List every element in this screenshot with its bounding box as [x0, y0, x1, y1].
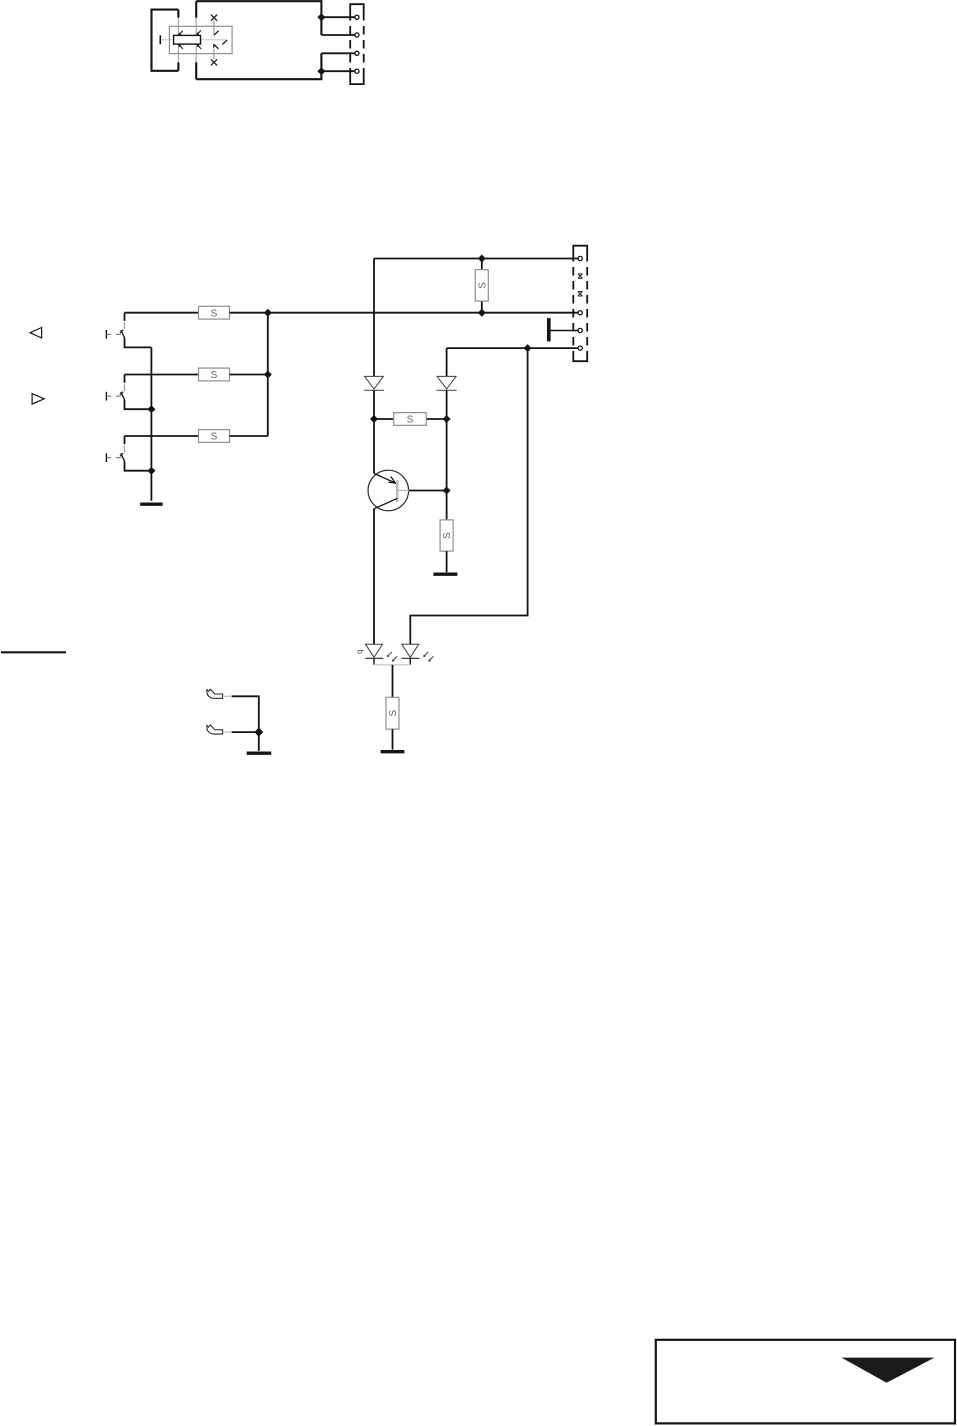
resistor S5	[394, 413, 427, 426]
horn symbol H1	[207, 689, 223, 698]
wire pin K2.4 run	[447, 347, 578, 349]
LED L1 arrows	[387, 652, 397, 662]
wire R3 to rail	[230, 435, 268, 437]
margin arrow up-symbol	[30, 328, 41, 339]
wire S7 to ground	[392, 729, 394, 750]
lamp X lower	[211, 59, 217, 65]
diode D2	[437, 376, 457, 390]
connector K2 pin 2	[578, 311, 582, 315]
actuation arrow top-right	[196, 30, 201, 35]
wire module to pin 1	[321, 16, 355, 18]
svg-text:S: S	[211, 370, 218, 381]
junction base resistor S6	[443, 487, 451, 495]
wire top bus to pin K2.1	[374, 258, 578, 260]
connector K2 pin 1	[578, 256, 582, 260]
resistor S7	[386, 697, 399, 729]
horn symbol H2	[207, 725, 223, 734]
wire D1 to junction	[373, 390, 375, 419]
chassis T bar	[547, 318, 551, 341]
wire H1 gray stub	[223, 695, 232, 697]
connector K2 code glyph 2	[578, 292, 583, 297]
margin arrow down-symbol	[32, 394, 44, 405]
connector K2 pin 3	[578, 328, 582, 332]
svg-text:b: b	[356, 650, 365, 655]
wire link to resistor S7	[392, 665, 394, 698]
module inner gray frame	[169, 26, 232, 53]
left branch vertical wire	[373, 259, 375, 377]
junction horn rail	[254, 728, 263, 737]
wire H2 gray stub	[223, 731, 232, 733]
contact blade lower	[214, 44, 219, 49]
slider axis line	[160, 39, 226, 41]
actuation arrow bottom-left	[178, 44, 183, 49]
lamp wire lower	[213, 49, 215, 60]
resistor S4 vertical	[475, 259, 488, 313]
actuation arrow bottom-right	[197, 44, 202, 49]
wire to resistor S5	[374, 418, 447, 420]
wire switch2 to resistor R2	[125, 374, 199, 376]
junction switch3 to rail	[147, 467, 155, 475]
connector K1 pin 3	[355, 51, 359, 55]
connector K1 housing	[350, 4, 364, 84]
svg-text:S: S	[442, 532, 453, 539]
connector K2 housing	[573, 246, 587, 362]
wire base to junction	[409, 490, 447, 492]
footer arrow	[842, 1358, 935, 1383]
chassis T wire	[551, 330, 579, 332]
wire junction to transistor emitter	[373, 419, 375, 473]
resistor R2	[199, 368, 230, 381]
junction LED2 feed	[524, 344, 532, 352]
ground symbol left	[140, 503, 162, 506]
wire D2 junction down to base	[446, 419, 448, 491]
resistor S6	[440, 520, 453, 551]
wire junction to resistor S6	[446, 491, 448, 520]
junction D1 base resistor	[370, 415, 378, 423]
LED L2 arrows	[423, 652, 433, 662]
connector K2 code glyph 1	[578, 274, 583, 279]
resistor R1	[199, 306, 230, 319]
wire LED2 feed down	[410, 348, 527, 644]
LED L2	[402, 644, 420, 665]
contact blade right	[222, 40, 227, 45]
diode D1	[364, 376, 384, 390]
LED L1	[365, 644, 383, 665]
ground symbol LEDs	[381, 750, 405, 753]
connector K1 pin 4	[355, 69, 359, 73]
actuator terminal tick	[159, 35, 161, 44]
wire R1 to bus	[230, 312, 578, 314]
pushbutton switch S2	[106, 375, 151, 410]
wire module to pin 3	[321, 52, 355, 54]
junction R2 rail	[264, 371, 272, 379]
ground symbol transistor	[433, 573, 457, 576]
wire switch3 to resistor R3	[125, 435, 199, 437]
svg-text:S: S	[407, 415, 414, 426]
slider contact bridge	[174, 35, 201, 44]
junction R1 bus	[264, 309, 272, 317]
wire D2 to junction	[446, 390, 448, 419]
wire S6 to ground	[446, 551, 448, 572]
pushbutton switch S3	[106, 436, 151, 471]
junction S4 top	[478, 255, 486, 263]
svg-text:S: S	[477, 282, 488, 289]
ground symbol horns	[247, 752, 272, 755]
wire module to pin 4	[321, 70, 355, 72]
contact blade upper	[214, 31, 219, 36]
svg-text:S: S	[388, 710, 399, 717]
resistor R3	[199, 430, 230, 443]
LED cathode link	[374, 664, 410, 666]
pushbutton switch S1	[106, 313, 151, 348]
switch module E1 left bracket	[152, 10, 179, 71]
lamp wire upper	[213, 21, 215, 36]
transistor Q1	[368, 470, 409, 511]
wire H2 to rail	[232, 731, 259, 733]
svg-text:S: S	[211, 432, 218, 443]
junction S4 bottom	[478, 309, 486, 317]
footer box	[656, 1340, 955, 1424]
actuation arrow top-left	[178, 31, 183, 36]
margin tick line	[1, 651, 66, 653]
wire transistor collector to LED1	[373, 508, 375, 644]
wire switch1 to resistor R1	[125, 312, 199, 314]
junction switch2 to rail	[147, 405, 155, 413]
connector K1 pin 2	[355, 33, 359, 37]
junction on module edge top	[317, 13, 325, 21]
rail R1-R3 vertical	[267, 313, 269, 436]
ground rail wire	[150, 347, 152, 500]
wire H1 to rail	[232, 696, 259, 751]
wire R2 to rail	[230, 374, 268, 376]
connector K1 pin 1	[355, 15, 359, 19]
junction on module edge bottom	[317, 67, 325, 75]
svg-text:S: S	[211, 308, 218, 319]
wire module to pin 2	[321, 34, 355, 36]
switch module E1 main box	[196, 1, 321, 79]
junction D2 base resistor	[443, 415, 451, 423]
connector K2 pin 4	[578, 346, 582, 350]
right branch from pin4 wire down	[446, 348, 448, 376]
lamp X upper	[211, 15, 217, 21]
